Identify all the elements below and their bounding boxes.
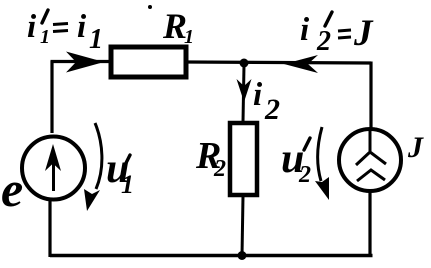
label u1' xyxy=(106,146,134,199)
wire right vertical upper segment xyxy=(369,62,372,130)
current arrow i2' on top wire pointing left xyxy=(284,55,318,73)
node top junction xyxy=(240,59,249,68)
svg-text:i: i xyxy=(27,9,37,45)
svg-text:i: i xyxy=(77,9,87,45)
resistor R2 xyxy=(230,123,257,195)
wire left vertical lower segment xyxy=(48,200,51,257)
current arrow i1 on top wire xyxy=(66,52,104,73)
label R2 xyxy=(195,135,226,182)
label i2 xyxy=(253,77,280,126)
svg-text:1: 1 xyxy=(40,26,50,48)
svg-text:2: 2 xyxy=(298,162,311,188)
wire top left horizontal xyxy=(51,60,113,63)
svg-text:2: 2 xyxy=(264,93,280,126)
svg-text:J: J xyxy=(353,13,374,54)
svg-text:2: 2 xyxy=(213,156,226,182)
node bottom junction xyxy=(238,251,247,260)
svg-text:e: e xyxy=(1,161,23,217)
svg-text:2: 2 xyxy=(316,26,331,57)
svg-text:i: i xyxy=(253,77,263,113)
current source J internal symbol xyxy=(356,130,386,181)
wire bottom xyxy=(50,254,373,257)
wire right vertical lower segment xyxy=(368,191,371,257)
wire left vertical top segment xyxy=(50,61,53,133)
svg-text:1: 1 xyxy=(89,24,103,55)
wire resistor R1 to right corner xyxy=(187,62,371,63)
label u2' xyxy=(281,136,311,188)
label R1 xyxy=(162,6,194,48)
label i1' = i1 xyxy=(27,9,103,55)
voltage arrow u2' curved xyxy=(318,127,322,181)
stray ink dot xyxy=(148,5,152,9)
voltage source e internal arrow xyxy=(52,158,55,191)
current arrow i2 pointing down xyxy=(237,79,252,102)
svg-text:1: 1 xyxy=(184,26,194,48)
svg-text:J: J xyxy=(407,131,424,164)
svg-text:1: 1 xyxy=(121,170,134,199)
voltage arrow u1' curved xyxy=(95,123,102,189)
svg-text:i: i xyxy=(300,12,310,48)
current source J xyxy=(339,129,401,191)
resistor R1 xyxy=(111,47,186,77)
wire middle branch lower xyxy=(242,196,243,256)
label i2' = J xyxy=(300,12,374,57)
wire middle branch upper with arrow xyxy=(243,65,244,122)
voltage source e xyxy=(22,137,85,200)
